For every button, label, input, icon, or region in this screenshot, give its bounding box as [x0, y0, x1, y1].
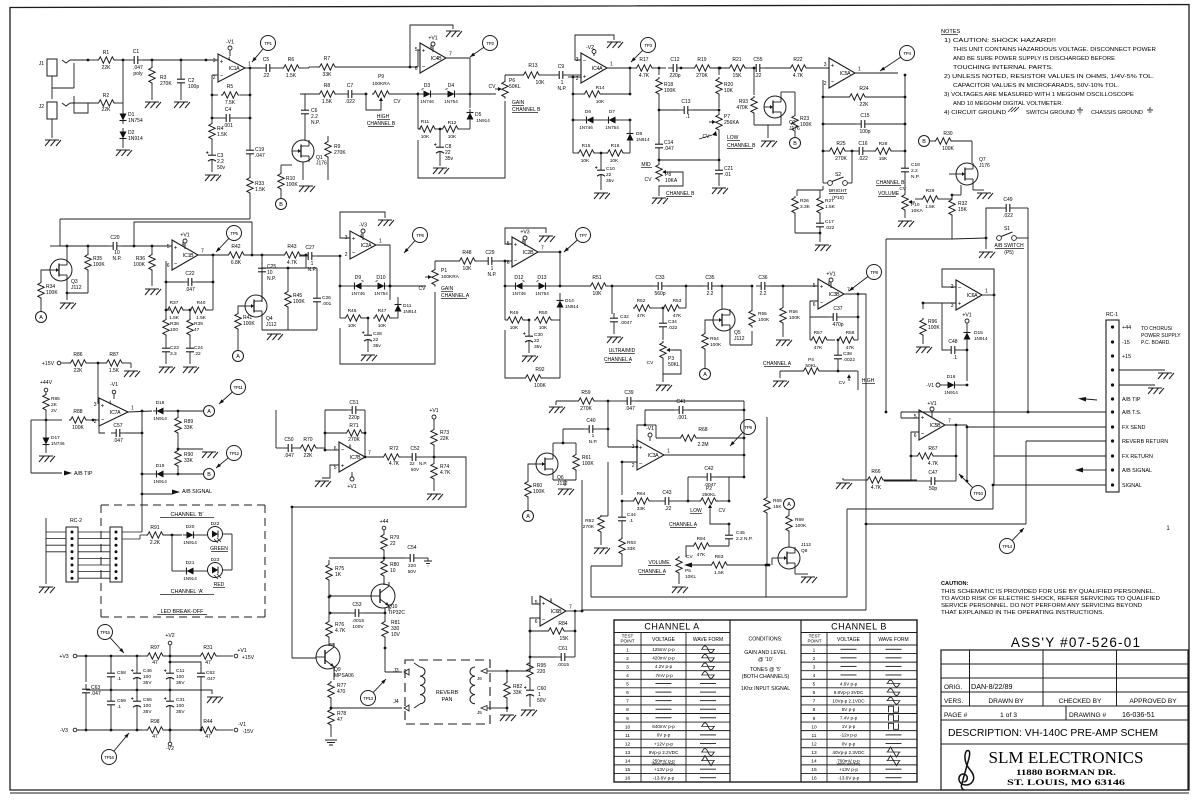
svg-text:-V3: -V3	[359, 223, 367, 229]
svg-text:47: 47	[337, 717, 343, 723]
svg-text:C18: C18	[911, 162, 920, 168]
wire row2 to Q3 top	[26, 245, 50, 247]
svg-text:2) UNLESS NOTED, RESISTOR VALU: 2) UNLESS NOTED, RESISTOR VALUES IN OHMS…	[944, 74, 1155, 80]
svg-text:100K: 100K	[795, 523, 807, 529]
svg-text:R30: R30	[943, 131, 952, 137]
testpoint TP15	[98, 625, 113, 640]
resistor R90	[175, 449, 181, 468]
diode D19	[141, 433, 143, 474]
svg-text:7.4V p-p: 7.4V p-p	[840, 716, 858, 721]
wire IC2B in vert	[504, 261, 506, 286]
svg-text:R40: R40	[197, 300, 206, 306]
transistor Q10	[371, 584, 395, 608]
feedback R5	[211, 75, 213, 95]
svg-text:A: A	[39, 315, 43, 321]
reverb coil left	[420, 667, 425, 704]
wire top feedback IC1B	[134, 222, 252, 255]
svg-text:P4: P4	[808, 357, 814, 363]
svg-text:IC7B: IC7B	[350, 455, 361, 461]
resistor R93	[753, 68, 755, 95]
svg-text:13: 13	[811, 750, 817, 756]
wire row1 bus	[309, 66, 318, 68]
svg-text:8: 8	[828, 282, 831, 288]
svg-text:POINT: POINT	[620, 639, 634, 644]
svg-text:R50: R50	[539, 310, 548, 316]
svg-text:+V3: +V3	[520, 230, 529, 236]
wire reverb drive from R80	[384, 608, 386, 613]
wire Q2 source	[780, 118, 782, 125]
testpoint TP7	[576, 228, 591, 243]
svg-text:100K: 100K	[582, 461, 594, 467]
wire Q1 drain	[281, 164, 292, 166]
svg-text:.047: .047	[625, 406, 635, 412]
svg-text:R91: R91	[150, 525, 159, 531]
wire IC3B out	[844, 294, 866, 412]
wire P2 wiper loop	[710, 513, 729, 524]
wire C5-R6	[275, 67, 283, 69]
svg-text:3.3K: 3.3K	[800, 204, 811, 210]
svg-text:−: −	[958, 286, 962, 292]
wire S2 bus down to IC5B	[885, 239, 887, 412]
testpoint TP12	[227, 446, 242, 461]
svg-text:15K: 15K	[773, 504, 782, 510]
svg-text:5V p-p: 5V p-p	[842, 707, 856, 712]
svg-text:6: 6	[813, 302, 816, 308]
capacitor C56	[136, 690, 138, 697]
resistor R45	[287, 268, 289, 290]
svg-text:R97: R97	[150, 645, 159, 651]
svg-text:1: 1	[985, 289, 988, 295]
svg-text:TIP32C: TIP32C	[388, 610, 405, 616]
svg-text:13: 13	[625, 750, 631, 756]
wire IC2A out	[376, 245, 390, 286]
svg-text:PAN: PAN	[442, 697, 453, 703]
svg-text:LOW: LOW	[727, 135, 739, 141]
diode D21	[171, 535, 173, 571]
svg-text:C56: C56	[143, 697, 152, 703]
svg-text:A: A	[703, 372, 707, 378]
svg-text:R48: R48	[462, 250, 471, 256]
wire main left vertical J-area	[59, 229, 61, 231]
svg-text:35V: 35V	[176, 680, 185, 686]
svg-text:+13V p-p: +13V p-p	[839, 767, 858, 772]
resistor R85	[45, 392, 47, 395]
wire A/B T.S.	[901, 411, 1106, 413]
svg-text:100K: 100K	[789, 315, 801, 321]
svg-text:47: 47	[152, 734, 158, 740]
svg-text:C43: C43	[662, 490, 671, 496]
resistor R57	[809, 317, 811, 340]
svg-text:C9: C9	[558, 64, 565, 70]
wire C41 feedback	[637, 410, 645, 447]
svg-text:REVERB: REVERB	[436, 690, 459, 696]
svg-text:50KL: 50KL	[805, 363, 817, 369]
svg-text:1.5K: 1.5K	[109, 368, 120, 374]
ground R82	[506, 708, 508, 712]
resistor R13	[522, 72, 541, 78]
resistor R33	[247, 176, 253, 195]
svg-text:+44V: +44V	[40, 380, 53, 386]
svg-text:R46: R46	[348, 308, 357, 314]
svg-text:THAT EXPLAINED IN THE OPERATIN: THAT EXPLAINED IN THE OPERATING INSTRUCT…	[941, 610, 1104, 616]
svg-text:270K: 270K	[160, 81, 172, 87]
wire R26 C17 join	[795, 232, 820, 234]
svg-text:RC-1: RC-1	[1106, 312, 1118, 318]
svg-text:A: A	[526, 514, 530, 520]
svg-text:220: 220	[537, 669, 546, 675]
diode D8	[627, 134, 634, 141]
svg-text:6: 6	[415, 66, 418, 72]
svg-text:8: 8	[626, 707, 629, 713]
wire S1 right vertical long	[1027, 208, 1029, 412]
svg-text:J176: J176	[316, 161, 327, 167]
capacitor C53	[350, 612, 355, 614]
svg-text:+: +	[921, 416, 925, 422]
svg-text:10KL: 10KL	[685, 574, 697, 580]
wire into S1 from left	[952, 238, 986, 239]
svg-text:C62: C62	[206, 670, 215, 676]
svg-text:100K: 100K	[72, 425, 84, 431]
svg-text:C44: C44	[627, 512, 636, 518]
resistor R8	[300, 93, 318, 95]
capacitor C48	[923, 302, 946, 304]
resistor R3	[151, 60, 153, 66]
svg-text:R83: R83	[715, 554, 724, 560]
svg-text:S1: S1	[1004, 226, 1010, 232]
svg-text:TP13: TP13	[363, 696, 373, 701]
svg-text:−: −	[101, 418, 105, 424]
wire IC3A pin2	[622, 462, 637, 495]
svg-text:C39: C39	[624, 390, 633, 396]
wire IC5A out	[855, 72, 898, 74]
wire D row	[418, 93, 419, 95]
capacitor C33	[612, 285, 653, 287]
svg-text:D19: D19	[156, 463, 165, 469]
svg-text:+15V: +15V	[42, 361, 55, 367]
svg-text:1.5K: 1.5K	[196, 315, 207, 321]
wire IC4B fb loop	[418, 50, 420, 67]
svg-text:TONES @ ’5’: TONES @ ’5’	[750, 667, 781, 673]
svg-text:C26: C26	[322, 295, 331, 301]
svg-text:47: 47	[205, 660, 211, 666]
svg-text:22K: 22K	[304, 453, 314, 459]
wire IC7A fb C57	[99, 419, 105, 433]
svg-text:12: 12	[625, 741, 631, 747]
svg-text:FX SEND: FX SEND	[1122, 425, 1145, 431]
svg-text:470K: 470K	[736, 105, 748, 111]
svg-text:22K: 22K	[860, 102, 870, 108]
svg-text:220: 220	[408, 563, 416, 569]
svg-text:50KL: 50KL	[668, 362, 680, 368]
svg-text:R71: R71	[349, 423, 358, 429]
svg-text:−: −	[352, 251, 356, 257]
svg-text:C37: C37	[833, 306, 842, 312]
svg-text:CV: CV	[645, 177, 653, 183]
svg-text:R67: R67	[928, 446, 937, 452]
wire IC3B bus to R83	[865, 412, 867, 524]
svg-text:16-036-51: 16-036-51	[1122, 710, 1155, 719]
svg-text:5: 5	[415, 47, 418, 53]
capacitor C17	[819, 218, 821, 223]
resistor R94	[692, 543, 711, 549]
svg-text:R6: R6	[288, 57, 295, 63]
svg-text:22: 22	[409, 461, 415, 466]
svg-text:22K: 22K	[440, 436, 450, 442]
svg-text:J112: J112	[266, 322, 277, 328]
svg-text:R57: R57	[814, 330, 823, 336]
svg-text:2V: 2V	[51, 408, 58, 414]
svg-text:CV: CV	[489, 84, 497, 90]
svg-text:TP6: TP6	[416, 233, 424, 238]
diode D3	[424, 91, 431, 98]
resistor R63	[619, 537, 625, 556]
testpoint TP9	[741, 420, 756, 435]
node B circle	[919, 136, 930, 147]
svg-text:10K: 10K	[510, 325, 519, 331]
svg-text:4: 4	[360, 234, 363, 240]
svg-text:100K: 100K	[243, 321, 255, 327]
wire R1 to C1	[115, 59, 130, 61]
resistor R89	[177, 411, 179, 417]
svg-text:4.7K: 4.7K	[335, 628, 346, 634]
svg-text:C32: C32	[620, 314, 629, 320]
svg-text:-13.6V p-p: -13.6V p-p	[838, 776, 860, 781]
svg-text:8: 8	[349, 445, 352, 451]
svg-text:TP12: TP12	[229, 451, 239, 456]
resistor R82	[506, 671, 508, 682]
svg-text:DRAWING #: DRAWING #	[1069, 712, 1106, 719]
svg-text:3.3: 3.3	[170, 351, 177, 357]
wire bus x847	[846, 509, 848, 597]
svg-text:10K: 10K	[348, 323, 357, 329]
svg-text:−: −	[639, 462, 643, 468]
wire IC2B out	[538, 252, 560, 286]
diode D14	[557, 301, 564, 308]
svg-text:D16: D16	[947, 374, 956, 380]
svg-text:270K: 270K	[580, 406, 592, 412]
capacitor C60	[529, 685, 531, 690]
ground symbol legend circuit	[1011, 107, 1016, 112]
svg-text:-15V: -15V	[243, 729, 254, 735]
resistor R30	[930, 140, 934, 142]
svg-text:ST. LOUIS, MO 63146: ST. LOUIS, MO 63146	[1007, 777, 1126, 787]
wire P3 loop	[663, 350, 681, 374]
svg-text:100K: 100K	[800, 122, 812, 128]
svg-text:1.5K: 1.5K	[714, 570, 725, 576]
ground filter	[207, 696, 221, 698]
svg-text:15K: 15K	[958, 207, 968, 213]
svg-text:R21: R21	[732, 57, 741, 63]
wire IC4B bottom loop	[418, 101, 505, 178]
resistor R16	[606, 150, 625, 156]
svg-text:35v: 35v	[445, 156, 454, 162]
svg-text:33K: 33K	[513, 690, 523, 696]
svg-text:VERS.: VERS.	[944, 698, 963, 705]
node B below R10	[276, 199, 287, 210]
transistor Q2	[764, 96, 786, 118]
svg-text:.22: .22	[665, 506, 672, 512]
svg-text:1: 1	[813, 647, 816, 653]
capacitor C44	[621, 501, 623, 512]
svg-text:C11: C11	[176, 668, 185, 674]
capacitor C11	[169, 668, 171, 673]
svg-text:8: 8	[430, 46, 433, 52]
resistor R24	[822, 80, 824, 97]
jack J2	[47, 102, 57, 119]
svg-text:.047: .047	[185, 287, 195, 293]
svg-text:6: 6	[167, 263, 170, 269]
wire IC2A fb top	[340, 212, 385, 238]
svg-text:4.7K: 4.7K	[928, 461, 939, 467]
svg-text:+V1: +V1	[927, 401, 936, 407]
node B small	[790, 138, 801, 149]
svg-text:R63: R63	[627, 540, 636, 546]
svg-text:3: 3	[626, 664, 629, 670]
svg-text:4: 4	[228, 57, 231, 63]
wire Q10 base	[330, 595, 371, 597]
svg-text:J112: J112	[71, 285, 82, 291]
testpoint TP10	[971, 486, 986, 501]
svg-text:1N754: 1N754	[374, 291, 388, 296]
svg-text:B: B	[207, 472, 211, 478]
resistor R59	[549, 406, 563, 408]
svg-text:C41: C41	[676, 399, 685, 405]
capacitor C16	[854, 150, 859, 152]
svg-text:A/B T.S.: A/B T.S.	[1122, 410, 1141, 416]
svg-text:.001: .001	[677, 415, 687, 421]
svg-text:R43: R43	[287, 244, 296, 250]
svg-text:.0047: .0047	[620, 320, 632, 326]
svg-text:N.P.: N.P.	[557, 86, 566, 92]
diode D16	[936, 383, 940, 387]
svg-text:CV: CV	[719, 508, 727, 514]
svg-text:-V1: -V1	[926, 383, 934, 389]
op-amp IC4B	[420, 43, 446, 73]
wire mid gnd	[86, 689, 170, 691]
svg-text:TP4: TP4	[903, 51, 911, 56]
svg-text:10K: 10K	[539, 325, 548, 331]
svg-text:100K: 100K	[942, 146, 954, 152]
svg-text:6: 6	[813, 690, 816, 696]
pot P10	[902, 193, 908, 212]
resistor R46	[339, 286, 341, 318]
svg-text:100KRA: 100KRA	[372, 81, 391, 87]
svg-text:.0015: .0015	[352, 618, 364, 624]
svg-text:3: 3	[813, 664, 816, 670]
pot P2	[688, 500, 700, 502]
ground C3	[205, 174, 219, 176]
svg-text:C34: C34	[668, 319, 677, 325]
power -V3 IC2A	[362, 233, 364, 240]
svg-text:C42: C42	[704, 466, 713, 472]
svg-text:N.P.: N.P.	[267, 276, 276, 282]
svg-text:1: 1	[248, 62, 251, 68]
svg-text:CHANNEL B: CHANNEL B	[727, 143, 756, 149]
resistor R97	[142, 655, 146, 657]
svg-text:R53: R53	[673, 298, 682, 304]
wire RC1 pin5 ground	[1119, 384, 1155, 386]
wire R94 to pot P5	[686, 546, 692, 557]
svg-text:THIS UNIT CONTAINS HAZARDOUS V: THIS UNIT CONTAINS HAZARDOUS VOLTAGE. DI…	[953, 47, 1156, 53]
svg-text:CV: CV	[647, 360, 654, 366]
svg-text:100V: 100V	[352, 624, 364, 630]
svg-text:D22: D22	[211, 521, 220, 527]
svg-text:.22: .22	[263, 73, 270, 79]
ground J1	[45, 139, 59, 141]
svg-text:IC3A: IC3A	[648, 453, 659, 459]
svg-text:N.P.: N.P.	[112, 256, 121, 262]
wire P6 up	[504, 75, 506, 80]
op-amp IC4A	[581, 53, 607, 83]
wire IC4A fb	[575, 35, 614, 60]
svg-text:22: 22	[390, 541, 396, 547]
capacitor C49	[986, 208, 1001, 237]
node split	[87, 59, 90, 62]
wire C1 out	[143, 59, 218, 61]
wire IC6B in	[530, 618, 540, 656]
resistor R9	[327, 136, 329, 140]
svg-text:+: +	[220, 60, 224, 66]
resistor R53	[662, 305, 681, 311]
svg-text:IC6B: IC6B	[551, 609, 562, 615]
svg-text:+V1: +V1	[429, 408, 438, 414]
svg-text:(P5): (P5)	[1004, 250, 1014, 256]
node A q5	[700, 369, 711, 380]
diode D11	[389, 286, 391, 300]
svg-text:C23: C23	[170, 345, 179, 351]
svg-text:.0022: .0022	[843, 357, 855, 363]
svg-text:IC6A: IC6A	[967, 293, 978, 299]
svg-text:TP8: TP8	[870, 270, 878, 275]
capacitor C35	[703, 285, 708, 287]
svg-text:CAPACITOR VALUES IN MICROFARAD: CAPACITOR VALUES IN MICROFARADS, 50V-10%…	[953, 83, 1120, 89]
svg-text:47K: 47K	[637, 313, 646, 319]
svg-text:220p: 220p	[348, 415, 359, 421]
transistor Q4	[305, 255, 307, 268]
svg-text:100: 100	[170, 327, 178, 333]
svg-text:35v: 35v	[373, 343, 381, 349]
svg-text:47K: 47K	[814, 345, 823, 351]
op-amp IC1A	[206, 59, 218, 61]
svg-text:C16: C16	[858, 141, 867, 147]
svg-text:3: 3	[632, 444, 635, 450]
resistor R66	[843, 479, 851, 481]
reverb pan dashed box	[405, 660, 490, 724]
svg-text:5: 5	[813, 682, 816, 688]
svg-text:470: 470	[337, 689, 346, 695]
svg-text:TP2: TP2	[486, 41, 494, 46]
svg-text:2: 2	[824, 81, 827, 87]
svg-text:+V1: +V1	[347, 484, 356, 490]
svg-text:100K: 100K	[758, 317, 770, 323]
resistor R87	[105, 360, 124, 366]
svg-text:1N914: 1N914	[128, 136, 143, 142]
svg-text:100K: 100K	[93, 262, 105, 268]
svg-text:10: 10	[390, 568, 396, 574]
capacitor C6	[304, 94, 306, 106]
capacitor C10	[600, 153, 602, 165]
resistor R4	[211, 118, 213, 122]
testpoint TP11	[231, 380, 246, 395]
svg-text:5: 5	[167, 244, 170, 250]
svg-text:REVERB RETURN: REVERB RETURN	[1122, 439, 1168, 445]
svg-text:1N914: 1N914	[183, 540, 197, 545]
svg-text:C28: C28	[373, 331, 382, 337]
svg-text:33K: 33K	[184, 458, 194, 464]
capacitor C47	[910, 456, 912, 481]
capacitor C54	[384, 557, 405, 559]
svg-text:2: 2	[213, 75, 216, 81]
